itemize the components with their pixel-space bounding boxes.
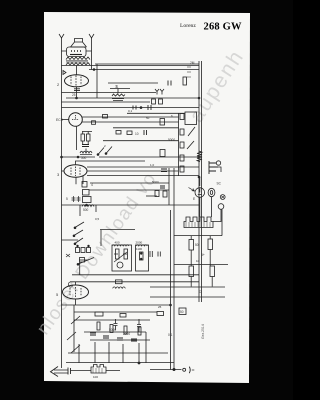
speaker basket body	[67, 47, 87, 57]
small box on wire	[92, 121, 96, 125]
resistor R1 hatch lines	[112, 99, 124, 101]
wire y235.6	[174, 235, 222, 237]
wire y260 stub	[79, 259, 88, 261]
capacitor C2	[82, 145, 89, 147]
svg-text:25: 25	[72, 93, 76, 97]
box1 winding A	[116, 249, 120, 259]
switch diagonal low	[77, 258, 94, 265]
wire y88 stub	[110, 89, 130, 94]
wire y92.6	[62, 92, 157, 94]
lamp arrow	[189, 188, 195, 192]
wire bus y102	[62, 101, 151, 103]
tube V3 leads down	[76, 176, 83, 184]
switch nodes	[74, 227, 76, 229]
svg-text:10: 10	[196, 259, 200, 263]
mains double lead	[54, 370, 68, 373]
component marks y108	[133, 105, 151, 110]
resistor R3	[87, 134, 91, 141]
switch diagonals mid	[98, 147, 112, 155]
plug tick	[192, 369, 195, 371]
electrolytic cap double circle	[208, 188, 215, 196]
wire y297	[150, 296, 225, 298]
box2 top winding bumps	[136, 245, 147, 246]
node switch	[97, 154, 99, 156]
wire vertical x101	[100, 230, 102, 246]
dial lamp filament	[198, 189, 202, 195]
wire bus y98	[66, 97, 199, 99]
wire y240	[62, 239, 79, 241]
output transformer T1 primary winding	[66, 57, 90, 60]
wire bus y168	[87, 166, 199, 168]
box around RF coil	[185, 112, 197, 125]
antenna fork symbols	[155, 89, 164, 95]
plug circle	[183, 368, 186, 371]
wire y312	[74, 311, 157, 313]
rectifier tube V5	[209, 161, 218, 174]
AF coupling resistor	[157, 312, 164, 316]
wire y229.6	[100, 229, 135, 231]
wire y140	[103, 140, 179, 142]
resistor R1 with hatch	[112, 94, 125, 96]
box1 tap dash	[114, 253, 127, 255]
vertical x97 box left	[96, 64, 98, 98]
svg-text:5+: 5+	[201, 253, 205, 257]
svg-text:2M: 2M	[190, 61, 195, 65]
svg-text:Lorenz: Lorenz	[180, 23, 196, 29]
resistor Ra	[97, 322, 100, 330]
wire y221	[80, 205, 96, 216]
oscillator coil box	[112, 245, 132, 271]
component mark a	[63, 71, 66, 75]
wire bus y120.5	[82, 121, 179, 123]
V3 left lead	[62, 170, 65, 172]
tube V4 leads	[75, 282, 77, 305]
resistor R2	[81, 134, 85, 141]
output transformer T1 secondary winding	[66, 63, 90, 65]
left margin small parts	[155, 191, 159, 197]
wire y190	[89, 189, 169, 191]
oscillator coil L1	[80, 151, 92, 153]
resistor on wire	[116, 280, 123, 284]
svg-text:50: 50	[195, 243, 199, 247]
corner resistor	[183, 77, 187, 85]
hook circle	[68, 282, 72, 287]
svg-text:0,1: 0,1	[128, 109, 133, 113]
dial lamp E	[195, 188, 205, 198]
caps pair right of box	[150, 251, 160, 257]
box1 winding B	[124, 249, 128, 259]
switch diagonal a	[67, 316, 80, 353]
box top winding bumps	[112, 245, 129, 246]
capacitor Cb	[103, 336, 109, 338]
wire rail continue	[71, 370, 121, 372]
wire y196 stub	[146, 195, 157, 197]
wire y113	[127, 112, 185, 114]
svg-text:25: 25	[158, 305, 162, 309]
tube V4 AF pentode	[63, 285, 89, 299]
wire y287	[150, 286, 225, 288]
lead end bars	[68, 368, 71, 375]
svg-text:100: 100	[93, 375, 98, 379]
tick pair on y83	[168, 81, 171, 86]
wire vertical x79.7	[79, 262, 81, 275]
small comb resistor bottom	[91, 365, 106, 374]
feeder vertical x178.5	[178, 113, 180, 176]
capacitor C3	[72, 196, 81, 202]
component row y130-137	[116, 131, 121, 135]
tick marks on bus	[187, 67, 191, 77]
resistor R6	[189, 240, 194, 251]
bus fork tick	[66, 254, 70, 257]
wire left main bus vertical	[61, 38, 63, 368]
drop verticals to rail	[79, 332, 146, 363]
tube V1 grid dashes	[71, 76, 81, 87]
vertical joins	[191, 210, 222, 287]
wire y128	[113, 127, 179, 129]
antenna tip right	[89, 34, 94, 38]
svg-text:0,1: 0,1	[168, 333, 173, 337]
capacitor C1	[74, 89, 80, 91]
output transformer T1 core	[66, 61, 88, 62]
node top bus	[93, 69, 95, 71]
mains arrow left	[51, 367, 59, 377]
svg-text:1100: 1100	[136, 247, 142, 251]
switch arm diagonal 1	[188, 127, 195, 136]
trimmer chain on bus	[180, 114, 184, 120]
speaker cone	[71, 42, 87, 47]
wire y320	[74, 319, 150, 321]
vertical pair lower	[171, 210, 175, 370]
trimmer pair	[152, 99, 156, 104]
chassis box top edge	[95, 63, 199, 65]
wire y332	[84, 331, 146, 333]
tube V4 grid dashes	[70, 287, 81, 297]
svg-text:SC: SC	[217, 182, 222, 186]
junction dots on buses	[76, 97, 78, 99]
tube V1 output pentode	[65, 75, 89, 87]
resistor Rc	[124, 326, 127, 334]
svg-text:5000: 5000	[168, 138, 175, 142]
small box a	[95, 312, 103, 316]
resistor R7	[208, 239, 213, 250]
wire bus y172	[87, 170, 178, 172]
left margin resistor 2	[160, 150, 165, 157]
box component	[83, 197, 92, 203]
box1 diagonal	[114, 252, 127, 262]
box2 winding dots	[140, 253, 142, 255]
left margin resistor	[160, 119, 165, 126]
resistor Rx	[103, 115, 108, 119]
small box low	[80, 258, 85, 263]
wire comb to terminal	[213, 210, 221, 222]
tube V3 grid dashes	[71, 167, 80, 177]
circled terminal 3	[218, 204, 224, 210]
rectifier circle	[216, 161, 220, 165]
tube V2 mixer circle	[69, 113, 83, 127]
svg-text:2000: 2000	[123, 332, 130, 336]
resistor R9	[210, 266, 215, 277]
wire y183	[90, 182, 169, 184]
svg-text:0,5: 0,5	[95, 217, 100, 221]
capacitor Ce vertical	[114, 319, 118, 330]
svg-text:2000: 2000	[136, 241, 143, 245]
small comb hatch	[93, 368, 102, 373]
capacitor Cd	[131, 339, 137, 341]
circled terminal x	[220, 195, 225, 200]
speaker hatch	[70, 54, 82, 56]
svg-text:1,0: 1,0	[150, 163, 155, 167]
box2 winding	[140, 252, 144, 260]
bottom rail y363	[66, 362, 174, 364]
svg-text:5000: 5000	[152, 180, 159, 184]
switch low dot	[77, 263, 79, 265]
wire y264.6	[174, 264, 228, 266]
rail nodes	[138, 362, 140, 364]
capacitor Cf vertical	[137, 319, 141, 332]
main bus vertical pair right	[199, 61, 202, 302]
svg-text:50: 50	[180, 310, 184, 314]
wire bus y177	[87, 175, 199, 177]
wire y305	[62, 304, 171, 306]
svg-text:10: 10	[135, 132, 139, 136]
box 50	[179, 308, 186, 315]
small caps y133	[144, 130, 147, 135]
coil L2	[82, 205, 94, 207]
svg-text:268 GW: 268 GW	[204, 22, 243, 33]
wire lamp connections	[200, 177, 212, 217]
wire y272.3	[72, 274, 199, 276]
white schematic page	[44, 12, 250, 383]
wire vertical x169	[168, 168, 170, 205]
resistor trio row	[76, 248, 80, 253]
tube V2 cathode drop	[76, 126, 78, 150]
svg-text:5: 5	[66, 197, 68, 201]
V3 top loop	[76, 161, 146, 165]
tube V1 anode lead	[76, 66, 78, 75]
plug arc	[188, 367, 191, 374]
resistor R4	[82, 182, 87, 188]
wire speaker frame right vertical	[91, 38, 93, 70]
rectifier lead	[216, 167, 221, 172]
IF transformer box 2	[136, 245, 149, 271]
wire bus y116.5	[82, 116, 179, 118]
resistor Rd	[138, 327, 141, 335]
svg-text:4: 4	[91, 183, 93, 187]
resistor R5	[83, 190, 90, 196]
wire V2 grid left	[62, 119, 69, 121]
wire y83 segment	[108, 82, 158, 84]
node y107	[140, 107, 142, 109]
wire bus y107.6	[62, 107, 200, 109]
trio dots	[77, 245, 79, 247]
speaker LS magnet	[75, 39, 83, 43]
antenna tip left	[59, 34, 64, 38]
svg-text:400: 400	[115, 241, 120, 245]
bottom rail y368	[150, 369, 182, 371]
wire y352	[68, 352, 168, 354]
resistor R8	[189, 266, 194, 277]
resistor Rb	[110, 325, 113, 333]
speaker coil dots	[71, 50, 81, 52]
small box b	[120, 314, 126, 318]
wire bus y157	[62, 156, 200, 158]
svg-text:5000: 5000	[109, 328, 116, 332]
wire segment	[82, 132, 92, 152]
wire vertical x174b	[173, 168, 175, 210]
svg-text:50: 50	[146, 116, 150, 120]
tube V2 internals	[72, 115, 79, 120]
left margin caps	[160, 169, 167, 188]
box1 coil bottom	[117, 262, 123, 268]
padder coil L3 zigzag	[197, 151, 202, 162]
wire y205	[62, 204, 200, 206]
svg-text:Gez.2514: Gez.2514	[201, 324, 205, 339]
winding row below	[113, 287, 126, 289]
tube V3 IF pentode	[64, 165, 87, 177]
switch arm diagonal 2	[187, 141, 194, 149]
capacitor Ca	[90, 333, 96, 335]
wire bus y67	[62, 65, 200, 67]
mains dropper comb resistor	[184, 217, 213, 228]
tube V1 cathode lead	[76, 87, 78, 98]
coil L1 core	[80, 154, 92, 156]
wire y279.8	[70, 281, 199, 283]
vertical left x74	[73, 305, 75, 352]
capacitor Cc	[117, 338, 123, 340]
svg-text:500: 500	[83, 208, 89, 212]
wire bus y70.5	[89, 69, 199, 71]
wire speaker to frame	[62, 50, 92, 52]
svg-text:ECH: ECH	[56, 118, 64, 122]
band switch cluster	[73, 222, 84, 244]
wire y340	[90, 339, 150, 341]
dropper hatch	[186, 222, 210, 227]
